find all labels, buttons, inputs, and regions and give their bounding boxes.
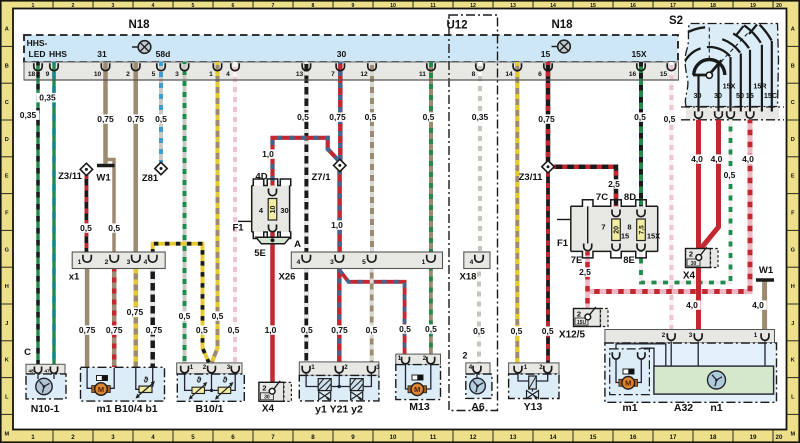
band label 58d [156, 49, 171, 59]
svg-text:F1: F1 [557, 238, 569, 249]
svg-text:Z3/11: Z3/11 [58, 171, 82, 182]
svg-text:11: 11 [430, 3, 436, 9]
svg-text:8D: 8D [624, 192, 636, 203]
svg-text:0,75: 0,75 [146, 325, 163, 335]
label x1 [69, 272, 80, 283]
svg-text:M: M [790, 431, 795, 437]
svg-text:ϑ: ϑ [144, 376, 149, 385]
wire X26 pin1 to M13 pin2 [429, 269, 433, 356]
svg-text:3: 3 [376, 364, 380, 371]
svg-text:15: 15 [660, 71, 668, 78]
busbar 5E [254, 237, 290, 259]
svg-text:2: 2 [462, 351, 467, 361]
wire N18 pin1 br/ye to B10/1 pin2 [212, 62, 218, 363]
svg-text:3: 3 [111, 434, 115, 441]
svg-text:A: A [294, 239, 301, 250]
connector x1 strip [72, 252, 165, 269]
svg-text:1: 1 [422, 259, 426, 266]
label X26 [279, 272, 296, 283]
svg-text:30: 30 [280, 206, 288, 215]
connector X26 strip [291, 252, 442, 269]
svg-text:4: 4 [144, 259, 148, 266]
svg-text:13: 13 [296, 71, 304, 78]
label 2 at A6 [462, 351, 467, 361]
svg-text:0,5: 0,5 [297, 112, 309, 122]
svg-text:6: 6 [538, 71, 542, 78]
svg-text:N18: N18 [551, 19, 573, 31]
svg-text:1: 1 [32, 3, 35, 9]
wire N18 pin12 br/gy to X26 pin5 [370, 62, 374, 256]
svg-text:7: 7 [331, 71, 335, 78]
svg-text:X26: X26 [279, 272, 296, 283]
svg-text:4,0: 4,0 [691, 154, 703, 164]
wire x1 pin2 to m1 B10/4 [112, 269, 117, 368]
wire Z3/11 left to x1 pin1 [85, 175, 89, 257]
svg-text:X18: X18 [460, 272, 477, 283]
solenoid valves y1 Y21 y2 [299, 362, 380, 402]
x1 cups [83, 255, 157, 262]
svg-text:0,75: 0,75 [127, 307, 144, 317]
svg-text:y1 Y21 y2: y1 Y21 y2 [315, 404, 363, 416]
svg-text:4,0: 4,0 [711, 154, 723, 164]
wire N18 pin6 bk/rd to Z3/11 [546, 62, 551, 162]
svg-text:15X: 15X [723, 82, 736, 91]
blower motor m1 B10/4 and sensor b1 [81, 367, 165, 401]
svg-text:3: 3 [330, 259, 334, 266]
label N10-1 [31, 403, 60, 415]
connector box U12 [446, 15, 497, 411]
svg-text:M13: M13 [409, 401, 430, 413]
svg-text:14: 14 [505, 71, 513, 78]
svg-text:F: F [5, 211, 9, 217]
svg-text:19: 19 [750, 434, 757, 441]
svg-text:2: 2 [71, 434, 75, 441]
svg-text:10: 10 [270, 206, 277, 214]
svg-text:2: 2 [689, 250, 693, 259]
band label 15X [631, 49, 646, 59]
svg-text:8: 8 [627, 223, 631, 232]
svg-text:0,5: 0,5 [473, 326, 485, 336]
svg-text:0,35: 0,35 [39, 93, 56, 103]
switch S2 contact arcs [664, 25, 772, 79]
svg-text:4: 4 [226, 71, 230, 78]
svg-text:1,0: 1,0 [265, 325, 277, 335]
svg-text:30: 30 [691, 261, 697, 267]
svg-text:7: 7 [601, 223, 605, 232]
band lamp symbol 2 [552, 40, 571, 53]
svg-text:1: 1 [524, 364, 528, 371]
N18 connector cups [34, 63, 676, 70]
svg-text:U12: U12 [446, 20, 467, 32]
svg-text:G: G [5, 247, 9, 253]
terminal block X12/5 [559, 307, 608, 341]
pump M13 [396, 354, 441, 400]
label 7E [571, 255, 583, 266]
wire Z7/1 to X26 pin3 [337, 171, 342, 257]
wire branch Z7/1 to fuse 4D [273, 138, 339, 191]
svg-text:D: D [5, 137, 9, 143]
svg-text:2: 2 [262, 383, 266, 392]
svg-text:L: L [5, 395, 9, 401]
svg-text:Z81: Z81 [142, 173, 159, 184]
svg-text:H: H [5, 284, 9, 290]
svg-text:0,5: 0,5 [366, 325, 378, 335]
svg-text:16: 16 [629, 71, 637, 78]
svg-text:4: 4 [469, 364, 473, 371]
svg-text:13: 13 [510, 434, 517, 441]
svg-text:15X: 15X [647, 232, 660, 241]
svg-text:0,75: 0,75 [97, 114, 114, 124]
svg-text:X4: X4 [683, 271, 696, 282]
svg-text:30: 30 [714, 91, 722, 100]
solenoid valve Y13 [509, 363, 559, 401]
svg-text:17: 17 [670, 3, 676, 9]
svg-text:1: 1 [78, 259, 82, 266]
svg-text:X4: X4 [262, 404, 275, 415]
svg-text:2: 2 [539, 364, 543, 371]
svg-text:W1: W1 [96, 173, 111, 184]
svg-text:2: 2 [105, 259, 109, 266]
svg-text:58d: 58d [156, 49, 171, 59]
svg-text:C: C [24, 347, 31, 358]
svg-text:1: 1 [398, 355, 402, 362]
svg-text:0,5: 0,5 [724, 170, 736, 180]
svg-text:12: 12 [470, 3, 476, 9]
svg-text:C: C [5, 100, 9, 106]
wire branch to x1 pin2 [106, 160, 114, 258]
label C [24, 347, 31, 358]
N18 strip lower edge [24, 79, 679, 81]
svg-text:20: 20 [776, 434, 783, 441]
connector X18 strip [464, 252, 490, 269]
wire N18 pin8 white to X18 [478, 62, 482, 256]
svg-text:H: H [791, 284, 795, 290]
label N18 left [128, 19, 150, 31]
svg-text:N18: N18 [128, 19, 150, 31]
svg-text:9: 9 [46, 71, 50, 78]
svg-text:J: J [791, 321, 794, 327]
svg-text:12: 12 [360, 71, 368, 78]
X18 pin number [470, 259, 474, 266]
svg-text:3: 3 [689, 332, 693, 339]
svg-text:0,5: 0,5 [423, 112, 435, 122]
svg-text:5: 5 [191, 434, 195, 441]
svg-text:B: B [791, 63, 795, 69]
svg-text:15: 15 [541, 49, 551, 59]
svg-text:15: 15 [746, 91, 754, 100]
label 8D [624, 192, 636, 203]
terminal Z7/1 [311, 159, 346, 183]
label m1 [622, 402, 637, 414]
svg-text:1: 1 [209, 71, 213, 78]
svg-text:0,5: 0,5 [399, 324, 411, 334]
S2 terminal labels [694, 82, 778, 101]
svg-text:D: D [791, 137, 795, 143]
svg-text:30: 30 [264, 395, 270, 401]
band label HHS-LED [27, 38, 48, 59]
svg-text:20: 20 [614, 226, 621, 234]
svg-text:4,0: 4,0 [742, 154, 754, 164]
svg-text:M: M [4, 431, 9, 437]
svg-text:3: 3 [227, 364, 231, 371]
svg-text:0,5: 0,5 [634, 112, 646, 122]
svg-text:15X: 15X [631, 49, 646, 59]
svg-text:5: 5 [152, 71, 156, 78]
svg-text:0,75: 0,75 [331, 325, 348, 335]
wire branch Z3/11 to fuse 7C [554, 167, 616, 212]
svg-text:11: 11 [430, 434, 437, 441]
svg-text:HHS-: HHS- [27, 38, 48, 48]
label A32 [674, 402, 693, 414]
svg-text:10: 10 [94, 71, 102, 78]
wire N18 pin16 gn/bk to fuse 8D [639, 62, 643, 212]
svg-text:M: M [98, 385, 104, 394]
svg-text:18: 18 [710, 3, 716, 9]
connector strip S2 [681, 107, 784, 120]
svg-text:15C: 15C [764, 91, 777, 100]
svg-text:0,35: 0,35 [472, 112, 489, 122]
svg-text:10: 10 [390, 434, 397, 441]
svg-text:1: 1 [311, 364, 315, 371]
svg-text:M: M [414, 385, 420, 394]
wire fuse 8E to S2 15X [641, 120, 731, 283]
svg-text:4: 4 [470, 259, 474, 266]
svg-text:5: 5 [192, 3, 195, 9]
label B10/1 [195, 403, 223, 415]
svg-text:0,5: 0,5 [511, 326, 523, 336]
switch S2 terminal lines [699, 41, 772, 112]
svg-text:Y13: Y13 [524, 401, 543, 413]
svg-text:0,75: 0,75 [329, 112, 346, 122]
wire N18 pin2 brown to x1 pin3 [133, 62, 138, 257]
box A32 [605, 343, 777, 402]
svg-text:2: 2 [577, 310, 581, 319]
wire x1 pin4 loop to B10/1 pin2 [153, 244, 209, 363]
svg-text:0,5: 0,5 [664, 114, 676, 124]
terminal Z3/11 left [58, 163, 92, 182]
svg-text:4D: 4D [255, 172, 267, 183]
svg-text:B: B [5, 63, 9, 69]
X26 cups [302, 255, 435, 262]
svg-text:N10-1: N10-1 [31, 403, 60, 415]
svg-text:0,75: 0,75 [127, 114, 144, 124]
control unit N10-1 [26, 364, 66, 399]
svg-text:Z3/11: Z3/11 [519, 172, 543, 183]
ground W1 right [756, 265, 774, 280]
svg-text:2: 2 [203, 364, 207, 371]
wire Z3/11 to Y13 pin2 [546, 172, 550, 364]
label A [294, 239, 301, 250]
label m1 B10/4 b1 [96, 403, 157, 415]
svg-text:0,5: 0,5 [212, 311, 224, 321]
svg-text:4: 4 [152, 3, 155, 9]
svg-text:7: 7 [271, 434, 275, 441]
svg-text:19: 19 [750, 3, 756, 9]
label X18 [460, 272, 477, 283]
svg-text:4,0: 4,0 [686, 300, 698, 310]
band label HHS [49, 49, 67, 59]
svg-text:x1: x1 [69, 272, 80, 283]
svg-text:4: 4 [297, 259, 301, 266]
wire X18 to A6 [477, 269, 481, 364]
svg-text:0,75: 0,75 [79, 325, 96, 335]
svg-text:E: E [791, 174, 795, 180]
ignition switch S2 body [685, 24, 778, 107]
svg-text:1: 1 [31, 434, 35, 441]
svg-text:2: 2 [662, 332, 666, 339]
label y1 Y21 y2 [315, 404, 363, 416]
svg-text:5E: 5E [254, 248, 266, 259]
S2 connector cups [695, 111, 754, 118]
svg-text:m1 B10/4 b1: m1 B10/4 b1 [96, 403, 157, 415]
svg-text:20: 20 [776, 3, 782, 9]
A32 internal wiring [616, 342, 765, 367]
sensor A6 [466, 363, 492, 399]
label 7C [596, 192, 608, 203]
label N18 right [551, 19, 573, 31]
svg-text:HHS: HHS [49, 49, 67, 59]
wire fuse 7E to X12/5 [585, 250, 590, 308]
label S2 [669, 15, 683, 27]
wire S2 30b to X4 [700, 120, 719, 250]
svg-text:1,0: 1,0 [331, 220, 343, 230]
svg-text:13: 13 [510, 3, 516, 9]
terminal Z3/11 right [519, 161, 555, 184]
pump m1 in A32 [610, 349, 650, 395]
svg-text:K: K [791, 358, 795, 364]
junction X4 red [696, 289, 701, 294]
svg-text:7E: 7E [571, 255, 583, 266]
svg-text:10: 10 [390, 3, 396, 9]
svg-text:30: 30 [337, 49, 347, 59]
svg-text:0,5: 0,5 [425, 324, 437, 334]
svg-text:18: 18 [28, 71, 36, 78]
svg-text:4,0: 4,0 [752, 300, 764, 310]
svg-text:15U: 15U [577, 320, 587, 326]
svg-text:A32: A32 [674, 402, 693, 414]
sensor unit B10/1 [177, 363, 245, 401]
svg-text:17: 17 [670, 434, 677, 441]
svg-text:S2: S2 [669, 15, 683, 27]
svg-text:0,5: 0,5 [365, 112, 377, 122]
X18 cup [475, 255, 483, 262]
wire N18 pin3 gy/gn to B10/1 pin1 [183, 62, 187, 363]
svg-text:m1: m1 [622, 402, 637, 414]
svg-text:5: 5 [362, 259, 366, 266]
band label 30 [337, 49, 347, 59]
svg-text:C: C [791, 100, 795, 106]
label M13 [409, 401, 430, 413]
svg-text:0,5: 0,5 [301, 325, 313, 335]
band label 15 [541, 49, 551, 59]
svg-text:8: 8 [311, 434, 315, 441]
wire x1 pin1 to m1 B10/4 [85, 269, 90, 368]
svg-text:G: G [791, 247, 795, 253]
terminal block X4 top [683, 247, 718, 282]
wire gauge labels [17, 93, 767, 337]
svg-text:X12/5: X12/5 [559, 330, 586, 341]
svg-text:B10/1: B10/1 [195, 403, 223, 415]
svg-text:14: 14 [550, 434, 557, 441]
svg-text:3: 3 [175, 71, 179, 78]
svg-text:2: 2 [423, 355, 427, 362]
svg-text:F: F [791, 211, 795, 217]
wire N18 pin13 bk/wh to X26 pin4 [304, 62, 308, 256]
svg-text:1,0: 1,0 [262, 149, 274, 159]
band label 31 [97, 49, 107, 59]
svg-text:LED: LED [29, 49, 46, 59]
svg-text:1: 1 [754, 332, 758, 339]
terminal block X4 bottom [259, 381, 292, 415]
svg-text:0,75: 0,75 [106, 325, 123, 335]
N18 pin numbers [28, 71, 668, 78]
svg-text:2,5: 2,5 [608, 179, 620, 189]
wire N18 pin15 pk/wh to A32 pin2 [669, 62, 673, 332]
svg-text:8: 8 [312, 3, 315, 9]
svg-text:0,5: 0,5 [108, 223, 120, 233]
svg-text:2,5: 2,5 [579, 267, 591, 277]
x1 pin numbers [78, 259, 148, 266]
svg-text:J: J [5, 321, 8, 327]
svg-text:8: 8 [472, 71, 476, 78]
svg-text:9: 9 [351, 434, 355, 441]
svg-text:n1: n1 [710, 402, 722, 414]
svg-text:8E: 8E [623, 255, 635, 266]
fuse F1 middle [232, 179, 290, 239]
svg-text:2: 2 [344, 364, 348, 371]
svg-text:16: 16 [630, 3, 636, 9]
svg-text:ϑ: ϑ [223, 376, 228, 385]
svg-text:ϑ: ϑ [197, 376, 202, 385]
svg-text:7C: 7C [596, 192, 608, 203]
band lamp symbol 1 [132, 41, 151, 54]
wire X26 pin5 to valve y2 [370, 269, 374, 363]
svg-text:15: 15 [621, 232, 629, 241]
control n1 in A32 [654, 366, 774, 394]
wire N18 pin18 gn/bk to N10-1 [36, 62, 39, 366]
svg-text:7,5: 7,5 [639, 225, 646, 234]
terminal Z81 [142, 162, 167, 184]
wire N18 pin5 gy/bl to Z81 [159, 62, 163, 163]
svg-text:L: L [791, 395, 795, 401]
svg-text:2: 2 [126, 71, 130, 78]
wire N18 pin7 rd/bl to Z7/1 [338, 62, 343, 161]
svg-text:2: 2 [72, 3, 75, 9]
svg-text:A: A [5, 27, 9, 33]
svg-text:0,35: 0,35 [20, 110, 37, 120]
svg-text:6: 6 [232, 3, 235, 9]
svg-text:W1: W1 [759, 265, 774, 276]
wire branch X26 pin3 to M13 pin1 [339, 270, 404, 355]
svg-text:16: 16 [630, 434, 637, 441]
wire N18 pin4 pk/wh to B10/1 pin3 [233, 62, 237, 363]
svg-text:F1: F1 [232, 223, 244, 234]
svg-text:1: 1 [190, 364, 194, 371]
svg-text:9: 9 [352, 3, 355, 9]
wire N18 pin11 br/gn to X26 pin1 [429, 62, 433, 256]
wire N18 pin9 gn/bl to N10-1 [52, 62, 55, 366]
svg-text:11: 11 [419, 71, 426, 78]
svg-text:Z7/1: Z7/1 [311, 172, 331, 183]
svg-text:3: 3 [112, 3, 115, 9]
wire x1 pin4 to b1 sensor [150, 269, 155, 368]
label Y13 [524, 401, 543, 413]
control unit N18 band [24, 35, 678, 62]
svg-text:0,5: 0,5 [155, 114, 167, 124]
svg-text:0,5: 0,5 [80, 223, 92, 233]
svg-text:15: 15 [590, 434, 597, 441]
label 8E [623, 255, 635, 266]
